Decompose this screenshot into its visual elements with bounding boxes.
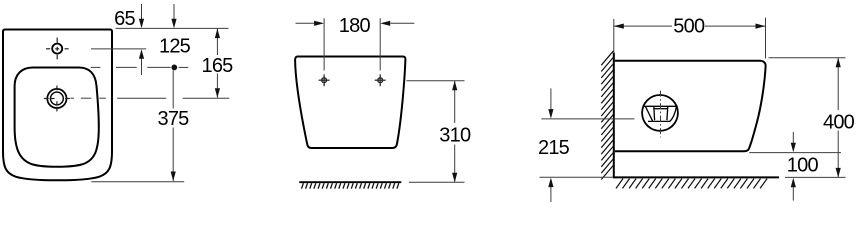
dim 500: dimension line xyxy=(614,25,672,27)
drain centerline y=98.2 (dash-dot) xyxy=(70,97,229,99)
middle ground extension to dim xyxy=(409,181,465,183)
dim 310: vertical line xyxy=(454,81,456,123)
svg-text:215: 215 xyxy=(538,137,570,159)
dim 215: bottom reference line xyxy=(540,176,613,178)
dim 400: top extension line xyxy=(769,57,846,59)
wall hatching xyxy=(601,51,613,180)
middle view: bidet body (front view) xyxy=(295,57,405,149)
svg-text:310: 310 xyxy=(439,125,471,147)
svg-text:125: 125 xyxy=(159,35,191,57)
dim 165: vertical dimension line xyxy=(216,29,218,55)
svg-text:65: 65 xyxy=(114,8,135,30)
dim 125: arrow + dot xyxy=(173,4,175,20)
wall line xyxy=(613,53,615,178)
dim 100: top reference line (bidet bottom ext) xyxy=(749,152,841,154)
middle ground hatching xyxy=(302,183,399,188)
left fixing hole xyxy=(319,74,330,86)
faucet hole center marks xyxy=(46,38,69,60)
faucet center extension line (65 ref) xyxy=(91,48,146,50)
dim line: top edge extension (y=28.4) xyxy=(116,27,229,29)
dim 215: top reference line xyxy=(541,118,634,120)
svg-text:500: 500 xyxy=(673,15,705,37)
drain inner circle xyxy=(51,92,64,105)
right fixing hole xyxy=(375,74,386,86)
drain center marks xyxy=(44,86,70,112)
dim 400: vertical line xyxy=(837,58,839,110)
dim 100: arrows xyxy=(792,132,794,144)
svg-text:165: 165 xyxy=(202,55,234,77)
logo circle xyxy=(642,95,678,131)
dot reference line y=67.4 (dash-dot) xyxy=(91,66,189,68)
logo icon lines xyxy=(644,106,678,121)
faucet hole circle xyxy=(52,44,62,54)
floor extension line (right) xyxy=(785,176,846,178)
floor hatching xyxy=(616,179,767,189)
svg-text:400: 400 xyxy=(823,111,855,133)
svg-text:180: 180 xyxy=(339,15,371,37)
bottom edge extension line y=181.8 xyxy=(91,181,184,183)
left view: inner basin rim xyxy=(15,68,99,167)
right view: bidet body (side profile) xyxy=(615,61,766,151)
floor line xyxy=(613,176,779,178)
dim 310: top extension line xyxy=(407,80,465,82)
svg-text:100: 100 xyxy=(787,155,819,177)
dim 65: arrows xyxy=(141,4,143,20)
dim 180: extension lines xyxy=(323,18,325,70)
dim 375: vertical dimension line xyxy=(172,70,174,108)
svg-text:375: 375 xyxy=(158,108,190,130)
left view: bidet outer rim (top view) xyxy=(3,30,112,181)
dim 215: arrows xyxy=(550,88,552,110)
middle ground line xyxy=(299,181,401,183)
dim 500: extension lines xyxy=(613,19,615,52)
logo centerline (dash-dot) xyxy=(660,91,662,138)
drain outer circle xyxy=(47,89,66,108)
dim 180: arrows xyxy=(296,22,315,24)
